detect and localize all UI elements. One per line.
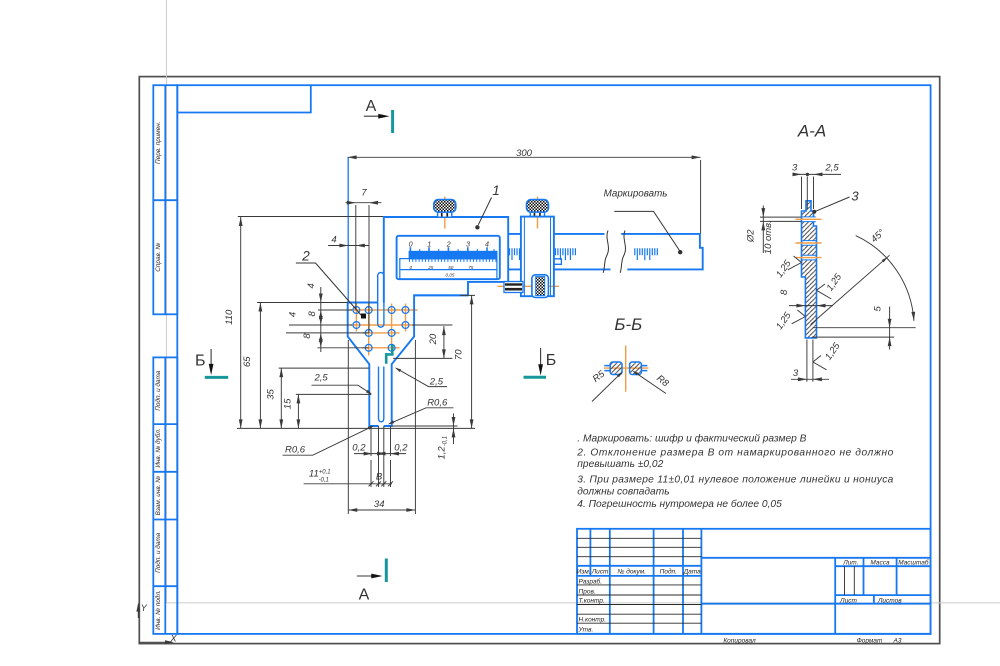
position leader 3	[816, 197, 850, 211]
svg-text:34: 34	[374, 499, 385, 510]
svg-text:7: 7	[361, 188, 367, 199]
holes row3	[365, 330, 372, 337]
svg-text:X: X	[170, 634, 178, 644]
orange clamp screw axis	[498, 285, 560, 287]
holes row4	[365, 344, 372, 351]
svg-text:Лит.: Лит.	[842, 559, 858, 566]
fork slot in stem	[379, 367, 384, 422]
A-A bottom dim 3	[791, 340, 829, 382]
head bottom edge right part	[414, 294, 468, 296]
svg-text:2: 2	[301, 249, 310, 264]
svg-text:70: 70	[454, 349, 465, 360]
svg-text:0,2: 0,2	[394, 442, 408, 453]
svg-text:Лист: Лист	[591, 569, 609, 576]
svg-text:Ø2: Ø2	[745, 229, 756, 243]
vernier teeth	[410, 259, 496, 262]
svg-text:Лист: Лист	[839, 597, 857, 604]
Lit sub-cell dividers	[845, 566, 855, 595]
svg-text:0: 0	[410, 265, 413, 270]
micrometer feed nut	[532, 275, 549, 298]
A-A hole band edges	[802, 217, 816, 260]
svg-text:3: 3	[466, 239, 470, 248]
title block (osnovnaya nadpis)	[577, 529, 931, 634]
beam ticks group0	[510, 248, 520, 260]
svg-text:4: 4	[485, 239, 489, 248]
dim 7	[346, 203, 382, 333]
svg-text:5: 5	[872, 305, 883, 311]
vernier window outer	[397, 236, 500, 279]
A-A 45 deg edge line	[811, 255, 890, 324]
A-A bar hatched body	[802, 201, 817, 338]
svg-text:Формат: Формат	[857, 637, 883, 644]
svg-text:-0,1: -0,1	[319, 478, 329, 484]
svg-text:Подп. и дата: Подп. и дата	[154, 532, 162, 572]
svg-text:Разраб.: Разраб.	[579, 577, 603, 585]
svg-text:А: А	[366, 98, 377, 115]
svg-text:3: 3	[851, 188, 859, 203]
B-B R5 label	[592, 373, 621, 401]
svg-text:Справ. №: Справ. №	[155, 243, 162, 272]
svg-text:2,5: 2,5	[824, 162, 839, 173]
svg-text:Перв. примен.: Перв. примен.	[155, 121, 162, 163]
svg-text:50: 50	[448, 265, 454, 270]
svg-text:Б-Б: Б-Б	[614, 315, 642, 334]
sheet outline (A3 page)	[139, 77, 939, 644]
faint CAD guide lines	[166, 0, 1000, 603]
svg-text:0: 0	[409, 239, 413, 248]
svg-text:300: 300	[516, 148, 533, 159]
orange hole axes: columns	[356, 304, 405, 356]
position leader 2	[296, 263, 362, 316]
svg-text:2: 2	[446, 239, 451, 248]
svg-text:А: А	[359, 587, 370, 604]
A-A dim d2 10 holes	[760, 206, 801, 254]
main scale tall ticks	[410, 247, 487, 259]
svg-text:Б: Б	[195, 353, 206, 370]
position leader 1	[478, 198, 491, 225]
orange hole axes: rows	[350, 310, 418, 348]
svg-text:Инв. № подл.: Инв. № подл.	[154, 590, 162, 630]
svg-text:35: 35	[266, 389, 277, 400]
B-B left lobe	[610, 362, 622, 375]
svg-text:Утв.: Утв.	[578, 627, 594, 634]
A-A hole gaps (white bands)	[803, 217, 816, 260]
section A marker top	[364, 115, 381, 117]
A-A 45 deg arc	[856, 236, 914, 321]
dim 65	[257, 303, 348, 429]
svg-text:превышать ±0,02: превышать ±0,02	[577, 459, 663, 470]
svg-text:8: 8	[302, 333, 313, 339]
svg-text:R0,6: R0,6	[285, 445, 306, 456]
A-A dim 8	[789, 305, 833, 307]
thumbscrew 1	[434, 200, 456, 213]
svg-text:25: 25	[427, 265, 434, 270]
orange centerlines of thumbscrews	[350, 197, 560, 356]
marking label leader	[614, 211, 679, 250]
B-B side tabs	[604, 366, 647, 371]
svg-text:4. Погрешность нутромера не бо: 4. Погрешность нутромера не более 0,05	[577, 498, 782, 510]
svg-text:Подп.: Подп.	[660, 568, 677, 576]
title block header labels	[577, 558, 929, 633]
svg-text:2,5: 2,5	[429, 376, 444, 387]
dim 8 (hole row1 to row2)	[319, 310, 323, 319]
dim 70	[460, 295, 475, 428]
svg-text:Листов: Листов	[877, 597, 902, 604]
break wavy lines	[603, 231, 608, 273]
B-B R8 label	[634, 372, 666, 394]
slot in head lower part	[378, 273, 384, 328]
section B cut trace (teal zigzag)	[386, 345, 392, 364]
A-A roughness 1,25 left bottom	[792, 310, 806, 324]
dim B and 11	[304, 460, 393, 487]
title block right part lines	[701, 558, 930, 634]
dim 0,2 right	[384, 426, 406, 487]
svg-text:1: 1	[492, 183, 500, 198]
svg-text:3: 3	[793, 368, 799, 379]
svg-text:. Маркировать: шифр и фактичес: . Маркировать: шифр и фактический размер…	[577, 433, 806, 445]
svg-text:0,2: 0,2	[352, 442, 366, 453]
svg-text:Пров.: Пров.	[579, 588, 596, 595]
svg-text:10 отв.: 10 отв.	[763, 220, 774, 254]
svg-text:Инв. № дубл.: Инв. № дубл.	[154, 428, 162, 467]
slider frame	[521, 217, 554, 297]
dim R0,6 left	[283, 426, 373, 455]
scale numbers	[409, 239, 489, 248]
svg-text:1: 1	[427, 239, 431, 248]
svg-text:Дата: Дата	[683, 569, 702, 576]
A-A roughness 1,25 bottom right	[813, 356, 827, 370]
dim 4 (plate top to hole row1)	[286, 287, 369, 352]
left margin upper blocks	[153, 85, 177, 634]
svg-text:4: 4	[306, 283, 317, 288]
left margin rotated labels	[154, 121, 162, 629]
svg-text:R0,6: R0,6	[427, 397, 448, 408]
svg-text:Б: Б	[546, 352, 557, 369]
beam ticks group2	[635, 248, 658, 260]
svg-text:8: 8	[779, 289, 790, 295]
svg-text:3: 3	[792, 163, 798, 174]
beam ticks group1	[555, 248, 575, 260]
dim 2,5 left	[312, 385, 372, 394]
svg-text:Взам. инв. №: Взам. инв. №	[155, 476, 162, 516]
head body outline	[348, 217, 509, 426]
svg-text:В: В	[376, 471, 383, 482]
svg-text:Изм.: Изм.	[577, 569, 591, 576]
dim 2,5 right	[397, 368, 448, 386]
left margin lower blocks	[153, 357, 177, 634]
dim 4 (top)	[328, 245, 369, 247]
main scale mid ticks	[420, 249, 494, 255]
dim 20	[393, 325, 452, 358]
dim 4 (row2 to row3)	[319, 333, 323, 342]
svg-text:№ докум.: № докум.	[617, 568, 646, 576]
svg-text:4: 4	[331, 235, 336, 246]
section B marker left	[210, 349, 212, 366]
svg-text:Масштаб: Масштаб	[898, 558, 929, 566]
svg-text:3. При размере 11±0,01 нул: 3. При размере 11±0,01 нулевое положение…	[577, 475, 893, 486]
holes row2	[353, 322, 360, 329]
title block thin black row lines	[577, 538, 854, 623]
vernier lower plate midline	[400, 269, 497, 271]
dim R0,6 right	[390, 408, 454, 424]
svg-text:Копировал: Копировал	[723, 637, 756, 644]
svg-text:Подп. и дата: Подп. и дата	[154, 370, 162, 410]
svg-text:Масса: Масса	[870, 559, 890, 566]
A-A roughness 1,25 left mid	[788, 256, 802, 270]
svg-text:8: 8	[307, 311, 318, 317]
svg-text:А-А: А-А	[797, 122, 826, 141]
svg-text:4: 4	[288, 312, 299, 317]
svg-text:110: 110	[224, 309, 235, 325]
dim 300	[348, 157, 701, 233]
svg-text:20: 20	[428, 333, 439, 345]
dim 8 (row3 to row4)	[319, 339, 323, 348]
section B marker right	[540, 348, 542, 367]
A-A roughness 1,25 right mid	[817, 284, 832, 299]
top-left designation box (graph 26)	[177, 85, 310, 112]
dim 15	[296, 394, 371, 428]
svg-text:65: 65	[242, 356, 253, 367]
svg-text:должны совпадать: должны совпадать	[577, 486, 669, 497]
main scale band	[409, 251, 498, 260]
svg-text:0,05: 0,05	[446, 273, 455, 278]
section A marker bottom	[357, 575, 374, 577]
svg-text:75: 75	[468, 265, 474, 270]
svg-text:2. Отклонение размера В от: 2. Отклонение размера В от намаркированн…	[576, 447, 893, 458]
prong bottoms	[369, 425, 391, 427]
drawing frame (inner border)	[177, 85, 930, 634]
B-B orange crosshair	[604, 346, 649, 392]
svg-text:15: 15	[282, 398, 293, 409]
B-B right lobe	[630, 362, 642, 375]
svg-text:2,5: 2,5	[314, 373, 329, 384]
dim 0,2 left	[354, 426, 382, 487]
coordinate axes marker	[138, 605, 170, 643]
title block header row	[577, 566, 701, 576]
frame right small tab	[554, 259, 562, 265]
clamp screw between head and slider	[504, 282, 523, 293]
beam segment between head and slider	[508, 234, 521, 270]
dim 34	[348, 340, 415, 514]
A-A orange hole axes	[796, 219, 822, 257]
dim 110	[237, 217, 475, 429]
svg-text:Т.контр.: Т.контр.	[579, 598, 605, 605]
A-A top dim 3 / 2,5	[793, 174, 842, 209]
svg-text:Маркировать: Маркировать	[604, 188, 668, 199]
beam right part with break	[554, 234, 703, 270]
svg-text:Н.контр.: Н.контр.	[579, 617, 607, 624]
svg-text:А3: А3	[893, 637, 902, 644]
A-A dim 5	[812, 307, 916, 350]
vernier numbers	[410, 265, 474, 278]
holes row1	[353, 307, 409, 352]
thumbscrew 2	[527, 200, 549, 213]
vernier lower plate	[400, 259, 497, 279]
dim 1,2-0,1	[392, 414, 458, 445]
dim 35	[279, 368, 369, 428]
svg-text:Y: Y	[141, 603, 148, 613]
title block change-table verticals	[590, 529, 701, 634]
